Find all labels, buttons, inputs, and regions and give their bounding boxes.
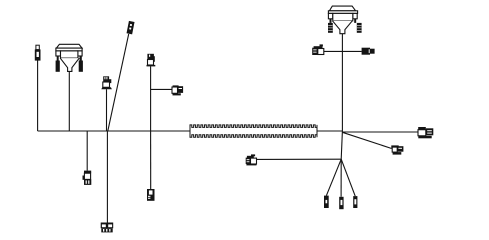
wire — [341, 131, 342, 159]
connector P8 (2-way housing) — [101, 223, 114, 233]
wire — [340, 159, 342, 197]
wire — [324, 50, 362, 52]
wire — [37, 61, 39, 132]
wire — [150, 131, 152, 189]
connector P15 — [246, 154, 257, 165]
D-sub connector P2 (left, rear view with strain relief) — [56, 44, 82, 71]
wire — [68, 71, 70, 131]
connector P6 — [172, 85, 183, 95]
wire — [151, 88, 172, 90]
connector P7 — [83, 171, 92, 185]
connector P9 — [147, 189, 155, 201]
wire — [257, 158, 341, 160]
connector P1 small inline plug — [35, 45, 41, 60]
connector P3 (tilted 2-pin plug) — [127, 21, 135, 34]
wire — [326, 159, 341, 195]
wire — [106, 89, 108, 131]
jack screw (left DB, left) — [56, 61, 60, 72]
jack screw (right DB, right, knurled) — [357, 23, 362, 33]
wire — [317, 130, 342, 132]
wire — [342, 131, 418, 133]
connector P16 — [324, 196, 329, 208]
wire — [38, 130, 190, 132]
D-sub connector P10 (right, rear view with strain relief) — [328, 6, 357, 34]
convoluted tubing — [190, 125, 317, 137]
connector P18 — [353, 196, 357, 208]
wire — [150, 66, 152, 131]
connector P12 (barrel plug) — [362, 48, 375, 55]
connector P14 — [391, 145, 403, 154]
wire — [341, 34, 343, 131]
connector P17 — [339, 197, 343, 209]
jack screw (left DB, right) — [79, 61, 83, 72]
connector P4 (boot plug) — [101, 76, 112, 89]
connector P5 — [147, 54, 156, 67]
wire — [108, 34, 129, 131]
wire — [106, 131, 108, 223]
connector P13 — [418, 127, 433, 138]
connector P11 — [312, 44, 324, 55]
wire — [341, 159, 355, 196]
wire — [342, 132, 391, 148]
wire — [86, 131, 88, 171]
jack screw (right DB, left, knurled) — [328, 23, 333, 33]
